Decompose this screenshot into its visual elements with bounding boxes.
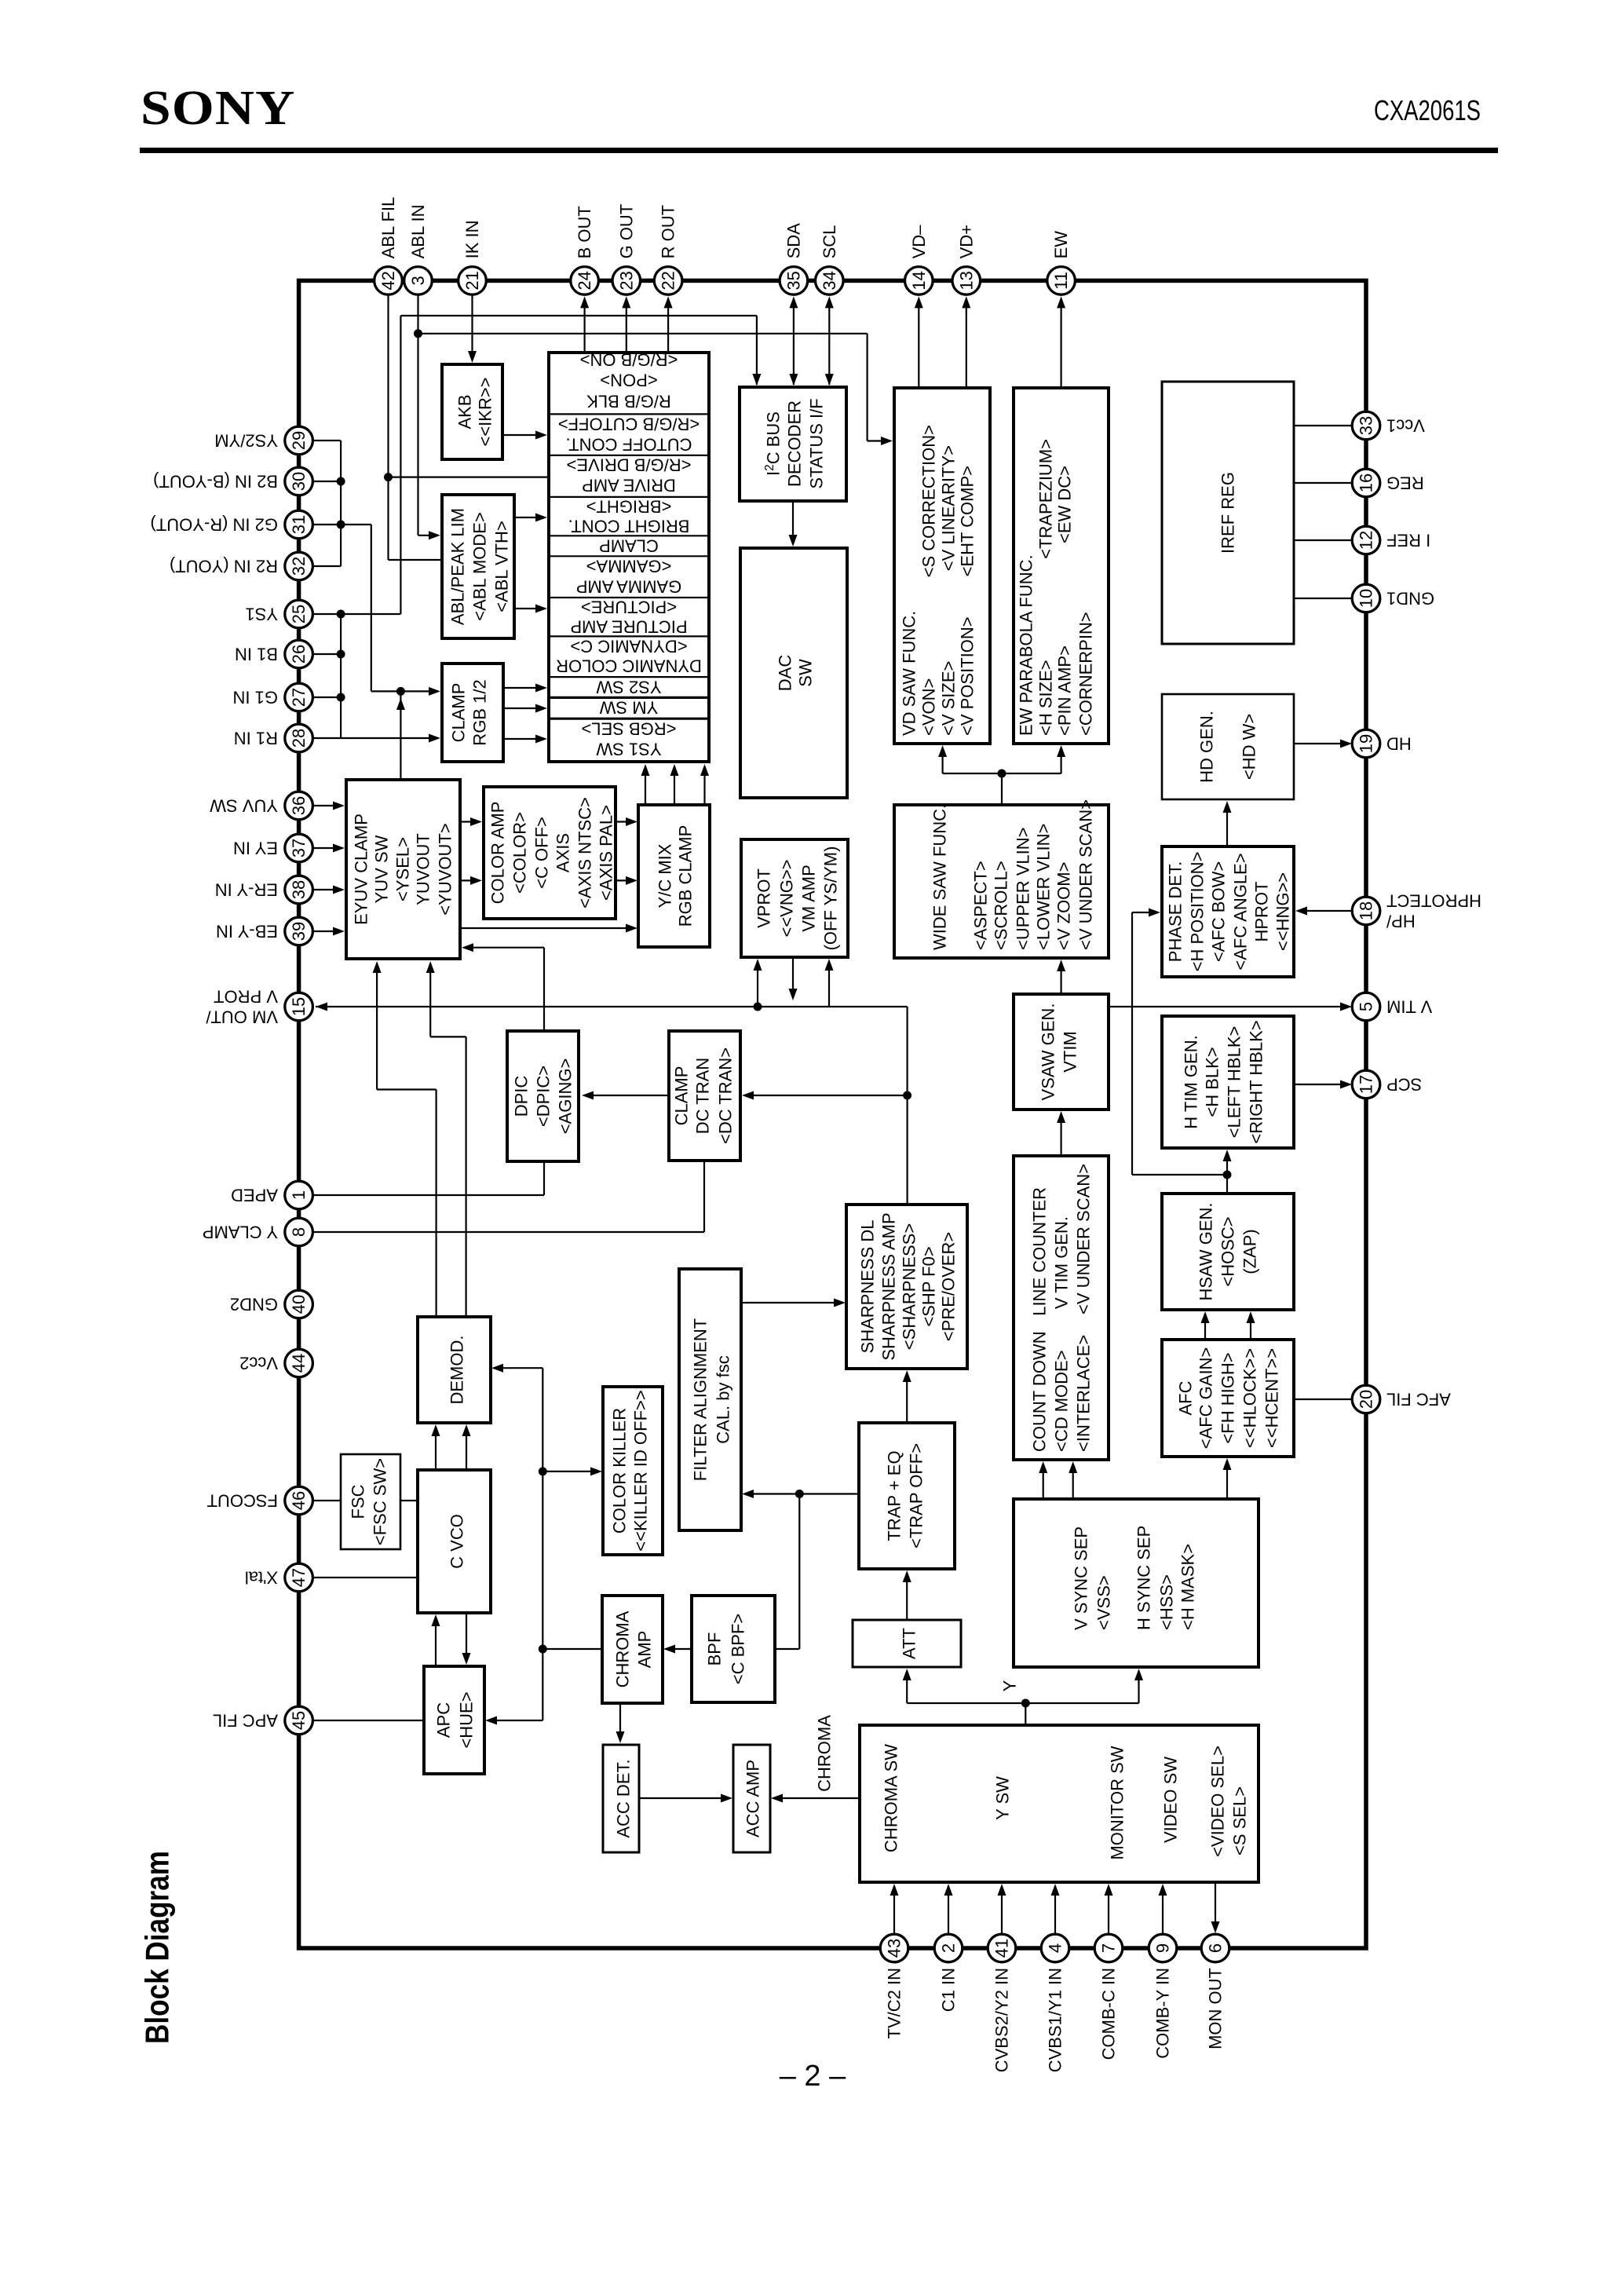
svg-text:AFC FIL: AFC FIL (1386, 1390, 1451, 1409)
svg-text:25: 25 (289, 605, 309, 623)
svg-text:32: 32 (289, 557, 309, 576)
svg-text:C1 IN: C1 IN (939, 1968, 959, 2012)
svg-text:<EW DC>: <EW DC> (1055, 466, 1075, 543)
svg-text:2: 2 (939, 1943, 959, 1953)
svg-text:<ABL MODE>: <ABL MODE> (470, 512, 490, 621)
svg-text:CAL. by fsc: CAL. by fsc (714, 1355, 733, 1443)
svg-text:VSAW GEN.: VSAW GEN. (1039, 1004, 1058, 1101)
svg-text:EY IN: EY IN (233, 839, 278, 858)
svg-text:MONITOR SW: MONITOR SW (1108, 1746, 1127, 1859)
svg-text:R1 IN: R1 IN (234, 729, 278, 748)
svg-text:FILTER ALIGNMENT: FILTER ALIGNMENT (691, 1318, 711, 1481)
svg-text:EYUV CLAMP: EYUV CLAMP (352, 813, 371, 925)
svg-text:YS1: YS1 (245, 605, 278, 624)
svg-text:<HUE>: <HUE> (457, 1691, 477, 1748)
svg-text:31: 31 (289, 515, 309, 534)
svg-text:8: 8 (289, 1227, 309, 1237)
svg-text:HD GEN.: HD GEN. (1197, 711, 1217, 783)
svg-text:COMB-Y IN: COMB-Y IN (1153, 1968, 1173, 2059)
svg-text:6: 6 (1206, 1943, 1226, 1953)
svg-text:V SYNC SEP: V SYNC SEP (1072, 1526, 1091, 1630)
svg-text:Vcc2: Vcc2 (239, 1354, 278, 1373)
svg-text:VD+: VD+ (956, 225, 976, 258)
svg-text:Y CLAMP: Y CLAMP (203, 1223, 278, 1242)
svg-text:36: 36 (289, 796, 309, 815)
svg-text:B1 IN: B1 IN (235, 645, 278, 664)
svg-text:11: 11 (1051, 272, 1071, 290)
svg-text:38: 38 (289, 880, 309, 899)
svg-text:<VSS>: <VSS> (1094, 1575, 1114, 1630)
svg-text:R/G/B BLK: R/G/B BLK (586, 392, 671, 411)
svg-text:APC: APC (434, 1702, 454, 1738)
svg-text:ABL/PEAK LIM: ABL/PEAK LIM (448, 508, 468, 625)
svg-text:<V UNDER SCAN>: <V UNDER SCAN> (1076, 799, 1096, 950)
svg-text:28: 28 (289, 729, 309, 748)
svg-text:GND2: GND2 (230, 1295, 278, 1314)
svg-text:<DC TRAN>: <DC TRAN> (716, 1047, 736, 1144)
svg-text:ABL FIL: ABL FIL (378, 197, 398, 259)
svg-text:R OUT: R OUT (659, 205, 678, 258)
svg-text:STATUS I/F: STATUS I/F (807, 398, 827, 488)
svg-text:<V POSITION>: <V POSITION> (958, 616, 977, 736)
svg-text:<LOWER VLIN>: <LOWER VLIN> (1034, 824, 1054, 950)
svg-text:CVBS2/Y2 IN: CVBS2/Y2 IN (992, 1968, 1012, 2072)
svg-text:39: 39 (289, 922, 309, 941)
svg-text:<VON>: <VON> (919, 678, 939, 736)
svg-text:APED: APED (231, 1186, 278, 1205)
svg-text:LINE COUNTER: LINE COUNTER (1030, 1187, 1050, 1316)
svg-text:<V ZOOM>: <V ZOOM> (1054, 862, 1074, 950)
svg-text:<SCROLL>: <SCROLL> (992, 861, 1011, 950)
svg-text:21: 21 (462, 271, 482, 290)
svg-text:<C OFF>: <C OFF> (532, 817, 552, 889)
svg-text:18: 18 (1357, 901, 1376, 920)
svg-text:<EHT COMP>: <EHT COMP> (958, 466, 977, 576)
svg-text:DPIC: DPIC (512, 1076, 532, 1117)
svg-text:VD–: VD– (909, 225, 929, 259)
svg-text:<V SIZE>: <V SIZE> (939, 661, 959, 736)
svg-text:<V LINEARITY>: <V LINEARITY> (939, 445, 959, 571)
svg-text:ABL IN: ABL IN (408, 205, 428, 259)
svg-text:<BRIGHT>: <BRIGHT> (586, 497, 672, 517)
svg-text:BPF: BPF (705, 1632, 725, 1666)
svg-text:DRIVE AMP: DRIVE AMP (582, 476, 676, 495)
svg-text:GND1: GND1 (1386, 589, 1434, 609)
svg-text:(OFF YS/YM): (OFF YS/YM) (821, 846, 841, 951)
svg-text:AFC: AFC (1176, 1380, 1196, 1415)
svg-text:YS1 SW: YS1 SW (596, 740, 661, 759)
svg-text:<TRAPEZIUM>: <TRAPEZIUM> (1036, 439, 1056, 559)
svg-text:<AFC GAIN>: <AFC GAIN> (1196, 1347, 1216, 1450)
svg-text:FSCOUT: FSCOUT (207, 1491, 278, 1511)
svg-text:SCL: SCL (820, 225, 839, 259)
svg-text:<YUVOUT>: <YUVOUT> (436, 823, 455, 915)
svg-text:H SYNC SEP: H SYNC SEP (1134, 1526, 1154, 1630)
svg-text:DECODER: DECODER (785, 400, 805, 487)
svg-text:REG: REG (1386, 473, 1424, 493)
svg-text:TV/C2 IN: TV/C2 IN (885, 1968, 904, 2038)
svg-text:35: 35 (784, 271, 803, 290)
svg-text:ER-Y IN: ER-Y IN (215, 880, 278, 900)
svg-text:<<HNG>>: <<HNG>> (1273, 872, 1293, 951)
svg-text:HPROTECT: HPROTECT (1386, 891, 1481, 911)
svg-text:YUV SW: YUV SW (210, 796, 278, 816)
svg-text:VTIM: VTIM (1061, 1031, 1080, 1073)
svg-text:Vcc1: Vcc1 (1386, 416, 1425, 436)
svg-text:<PICTURE>: <PICTURE> (581, 598, 677, 617)
svg-text:COUNT DOWN: COUNT DOWN (1030, 1331, 1050, 1452)
svg-text:<INTERLACE>: <INTERLACE> (1074, 1335, 1094, 1452)
svg-text:SCP: SCP (1386, 1075, 1422, 1095)
svg-text:<DYNAMIC C>: <DYNAMIC C> (570, 637, 687, 656)
svg-text:<RGB SEL>: <RGB SEL> (581, 719, 676, 739)
svg-text:I REF: I REF (1386, 531, 1430, 550)
svg-text:17: 17 (1357, 1075, 1376, 1094)
svg-text:41: 41 (992, 1939, 1012, 1958)
svg-text:13: 13 (956, 271, 976, 290)
svg-text:AXIS: AXIS (553, 833, 573, 872)
svg-text:VPROT: VPROT (754, 868, 774, 928)
svg-text:37: 37 (289, 839, 309, 857)
svg-text:26: 26 (289, 645, 309, 664)
svg-text:10: 10 (1357, 589, 1376, 608)
svg-text:16: 16 (1357, 473, 1376, 492)
svg-text:<RIGHT HBLK>: <RIGHT HBLK> (1247, 1020, 1266, 1143)
svg-text:<R/G/B CUTOFF>: <R/G/B CUTOFF> (558, 415, 700, 434)
svg-text:CVBS1/Y1 IN: CVBS1/Y1 IN (1046, 1968, 1065, 2072)
svg-text:<<HLOCK>>: <<HLOCK>> (1240, 1348, 1260, 1448)
svg-text:<AFC BOW>: <AFC BOW> (1209, 861, 1229, 962)
svg-text:<AXIS PAL>: <AXIS PAL> (597, 805, 616, 901)
svg-text:PICTURE AMP: PICTURE AMP (570, 617, 687, 637)
svg-text:24: 24 (575, 271, 594, 290)
svg-text:COMB-C IN: COMB-C IN (1099, 1968, 1119, 2060)
svg-text:COLOR KILLER: COLOR KILLER (610, 1408, 630, 1534)
svg-text:V TIM: V TIM (1386, 997, 1432, 1017)
svg-text:G2 IN (R-YOUT): G2 IN (R-YOUT) (150, 515, 278, 535)
svg-text:<H MASK>: <H MASK> (1178, 1544, 1198, 1630)
svg-text:CHROMA: CHROMA (815, 1715, 835, 1792)
svg-text:43: 43 (885, 1939, 904, 1958)
svg-text:<HSS>: <HSS> (1157, 1574, 1177, 1630)
svg-text:Y SW: Y SW (993, 1776, 1013, 1820)
svg-text:YS2/YM: YS2/YM (214, 431, 278, 451)
svg-text:DEMOD.: DEMOD. (448, 1336, 467, 1405)
svg-text:<<IKR>>: <<IKR>> (476, 377, 495, 446)
svg-text:22: 22 (659, 271, 678, 290)
svg-text:<R/G/B ON>: <R/G/B ON> (580, 350, 678, 370)
svg-text:V PROT: V PROT (214, 987, 278, 1007)
svg-text:<FSC SW>: <FSC SW> (371, 1458, 390, 1545)
svg-text:<ASPECT>: <ASPECT> (971, 861, 991, 950)
svg-text:<H BLK>: <H BLK> (1203, 1047, 1222, 1117)
svg-text:29: 29 (289, 431, 309, 450)
svg-text:<S CORRECTION>: <S CORRECTION> (919, 425, 939, 577)
svg-text:Block Diagram: Block Diagram (139, 1851, 176, 2044)
svg-text:YUVOUT: YUVOUT (414, 833, 433, 905)
svg-text:C VCO: C VCO (448, 1514, 467, 1569)
svg-text:46: 46 (289, 1491, 309, 1510)
svg-text:VIDEO SW: VIDEO SW (1161, 1757, 1181, 1843)
svg-text:5: 5 (1357, 1002, 1376, 1011)
svg-text:<PRE/OVER>: <PRE/OVER> (939, 1232, 959, 1341)
svg-text:30: 30 (289, 472, 309, 491)
svg-text:ACC DET.: ACC DET. (614, 1759, 634, 1837)
svg-text:9: 9 (1153, 1943, 1173, 1953)
svg-text:<TRAP OFF>: <TRAP OFF> (907, 1443, 926, 1548)
svg-text:EW PARABOLA FUNC.: EW PARABOLA FUNC. (1017, 554, 1036, 736)
svg-text:IK IN: IK IN (462, 220, 482, 258)
svg-text:<FH HIGH>: <FH HIGH> (1218, 1352, 1238, 1443)
svg-text:<PIN AMP>: <PIN AMP> (1055, 645, 1075, 736)
svg-text:HP/: HP/ (1386, 912, 1416, 931)
svg-text:40: 40 (289, 1295, 309, 1314)
svg-text:PHASE DET.: PHASE DET. (1166, 861, 1185, 962)
svg-text:YUV SW: YUV SW (372, 835, 392, 903)
svg-text:– 2 –: – 2 – (780, 2060, 846, 2093)
svg-text:<PON>: <PON> (600, 371, 657, 390)
svg-text:<<KILLER ID OFF>>: <<KILLER ID OFF>> (631, 1390, 651, 1551)
svg-text:14: 14 (909, 271, 929, 290)
svg-text:19: 19 (1357, 734, 1376, 753)
svg-text:SONY: SONY (141, 81, 295, 135)
svg-text:<HD W>: <HD W> (1240, 714, 1259, 780)
svg-text:<H POSITION>: <H POSITION> (1188, 852, 1207, 972)
svg-text:<VIDEO SEL>: <VIDEO SEL> (1208, 1746, 1228, 1857)
svg-text:CUTOFF CONT.: CUTOFF CONT. (566, 435, 692, 455)
svg-text:Y/C MIX: Y/C MIX (656, 843, 675, 908)
svg-text:<YSEL>: <YSEL> (393, 837, 413, 901)
svg-text:12: 12 (1357, 531, 1376, 550)
svg-text:4: 4 (1046, 1943, 1065, 1953)
svg-text:<AXIS NTSC>: <AXIS NTSC> (575, 797, 595, 909)
svg-text:YM SW: YM SW (599, 698, 658, 718)
svg-text:FSC: FSC (349, 1484, 368, 1519)
svg-text:<<HCENT>>: <<HCENT>> (1262, 1348, 1282, 1448)
svg-text:27: 27 (289, 688, 309, 707)
svg-text:COLOR AMP: COLOR AMP (488, 802, 508, 905)
svg-text:R2 IN (YOUT): R2 IN (YOUT) (170, 557, 278, 576)
svg-text:YS2 SW: YS2 SW (596, 678, 661, 697)
svg-text:APC FIL: APC FIL (213, 1711, 278, 1731)
svg-text:<CD MODE>: <CD MODE> (1052, 1350, 1072, 1452)
svg-text:<SHARPNESS>: <SHARPNESS> (900, 1223, 919, 1350)
svg-text:DYNAMIC COLOR: DYNAMIC COLOR (556, 656, 702, 676)
svg-text:RGB 1/2: RGB 1/2 (470, 679, 490, 745)
svg-text:7: 7 (1099, 1943, 1119, 1953)
svg-text:AMP: AMP (635, 1631, 655, 1669)
svg-text:<HOSC>: <HOSC> (1218, 1216, 1238, 1286)
svg-text:CLAMP: CLAMP (449, 683, 469, 743)
svg-text:G1 IN: G1 IN (233, 688, 278, 707)
svg-text:SHARPNESS DL: SHARPNESS DL (858, 1220, 878, 1354)
svg-text:IREF REG: IREF REG (1218, 472, 1238, 554)
svg-text:RGB CLAMP: RGB CLAMP (676, 825, 696, 927)
svg-text:<<VNG>>: <<VNG>> (777, 859, 797, 937)
svg-text:EW: EW (1051, 231, 1071, 259)
svg-text:SDA: SDA (784, 223, 803, 259)
svg-text:CXA2061S: CXA2061S (1374, 94, 1481, 126)
svg-text:H TIM GEN.: H TIM GEN. (1182, 1035, 1201, 1128)
svg-text:<LEFT HBLK>: <LEFT HBLK> (1225, 1026, 1244, 1139)
svg-text:HSAW GEN.: HSAW GEN. (1196, 1202, 1216, 1300)
svg-text:CHROMA: CHROMA (613, 1610, 633, 1687)
svg-text:HPROT: HPROT (1252, 882, 1272, 942)
svg-text:<DPIC>: <DPIC> (534, 1066, 553, 1127)
svg-text:3: 3 (408, 276, 428, 285)
svg-text:<S SEL>: <S SEL> (1230, 1786, 1250, 1855)
svg-text:DC TRAN: DC TRAN (693, 1058, 713, 1134)
svg-text:<AFC ANGLE>: <AFC ANGLE> (1231, 853, 1251, 970)
svg-text:Y: Y (1000, 1680, 1020, 1691)
svg-text:CLAMP: CLAMP (599, 536, 659, 556)
svg-text:44: 44 (289, 1354, 309, 1373)
svg-text:1: 1 (289, 1190, 309, 1200)
svg-text:EB-Y IN: EB-Y IN (216, 922, 278, 941)
svg-text:<GAMMA>: <GAMMA> (586, 557, 672, 576)
svg-text:DAC: DAC (776, 655, 795, 692)
svg-text:<UPPER VLIN>: <UPPER VLIN> (1014, 827, 1033, 950)
svg-text:SHARPNESS AMP: SHARPNESS AMP (879, 1212, 899, 1360)
svg-text:CHROMA SW: CHROMA SW (882, 1744, 901, 1852)
svg-text:(ZAP): (ZAP) (1240, 1229, 1260, 1274)
svg-text:TRAP + EQ: TRAP + EQ (885, 1450, 904, 1541)
svg-text:<R/G/B DRIVE>: <R/G/B DRIVE> (567, 455, 692, 475)
svg-text:33: 33 (1357, 416, 1376, 435)
svg-text:<COLOR>: <COLOR> (510, 812, 530, 894)
svg-text:V TIM GEN.: V TIM GEN. (1052, 1216, 1072, 1309)
svg-text:MON OUT: MON OUT (1206, 1968, 1226, 2049)
svg-text:ATT: ATT (900, 1628, 919, 1659)
svg-text:<V UNDER SCAN>: <V UNDER SCAN> (1074, 1164, 1094, 1314)
svg-text:HD: HD (1386, 734, 1412, 754)
svg-text:<ABL VTH>: <ABL VTH> (492, 521, 512, 612)
svg-text:B2 IN (B-YOUT): B2 IN (B-YOUT) (153, 472, 278, 492)
svg-text:<H SIZE>: <H SIZE> (1036, 660, 1056, 736)
svg-text:<C BPF>: <C BPF> (729, 1614, 748, 1684)
svg-text:VM OUT/: VM OUT/ (205, 1007, 278, 1027)
svg-text:X'tal: X'tal (245, 1568, 278, 1588)
svg-text:CLAMP: CLAMP (672, 1066, 692, 1126)
svg-text:42: 42 (378, 271, 398, 290)
svg-text:23: 23 (616, 271, 636, 290)
svg-text:<AGING>: <AGING> (556, 1058, 575, 1135)
svg-text:47: 47 (289, 1568, 309, 1587)
svg-text:20: 20 (1357, 1390, 1376, 1409)
svg-text:VD SAW FUNC.: VD SAW FUNC. (900, 611, 919, 736)
svg-text:<CORNERPIN>: <CORNERPIN> (1076, 612, 1096, 736)
svg-text:WIDE SAW FUNC.: WIDE SAW FUNC. (930, 804, 950, 950)
svg-text:B OUT: B OUT (575, 206, 594, 258)
svg-text:45: 45 (289, 1711, 309, 1730)
svg-text:G OUT: G OUT (616, 204, 636, 259)
svg-text:AKB: AKB (455, 394, 475, 429)
svg-text:VM AMP: VM AMP (799, 865, 819, 932)
svg-text:GAMMA AMP: GAMMA AMP (576, 577, 681, 597)
svg-text:BRIGHT CONT.: BRIGHT CONT. (568, 517, 690, 536)
svg-text:<SHP F0>: <SHP F0> (919, 1246, 939, 1326)
svg-text:34: 34 (820, 271, 839, 290)
svg-text:SW: SW (796, 659, 816, 687)
svg-text:ACC AMP: ACC AMP (743, 1760, 763, 1837)
svg-text:15: 15 (289, 997, 309, 1016)
